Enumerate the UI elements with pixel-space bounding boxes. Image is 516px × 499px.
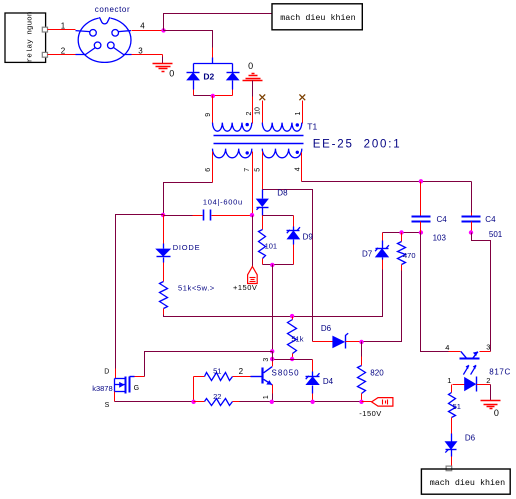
bottom rail left	[115, 401, 194, 403]
wire D6 anode stub	[313, 341, 333, 343]
relay nguon terminal pin 1	[42, 27, 47, 32]
wire opto pin1 down	[451, 385, 453, 393]
diode D2 right element	[226, 72, 240, 80]
wire T1 pin4	[301, 153, 303, 182]
ground 0 (conector)	[153, 63, 173, 65]
junction pin6/cap node	[161, 213, 165, 217]
svg-text:S: S	[105, 402, 110, 409]
svg-text:conector: conector	[95, 5, 130, 14]
transistor K3878 (MOSFET)	[115, 378, 126, 380]
svg-text:D8: D8	[277, 189, 288, 198]
wire D6 cathode to 820 node	[346, 341, 362, 343]
svg-text:mach dieu khien: mach dieu khien	[430, 478, 505, 488]
svg-text:EE-25 200:1: EE-25 200:1	[313, 138, 402, 150]
svg-text:D: D	[104, 368, 109, 375]
svg-text:k3878: k3878	[92, 384, 112, 393]
terminal square	[446, 466, 452, 471]
junction pin7/cap	[250, 213, 254, 217]
svg-text:mach dieu khien: mach dieu khien	[280, 13, 355, 23]
svg-text:5: 5	[254, 168, 261, 172]
optocoupler light arrows	[463, 365, 469, 374]
junction bottom rail 22 left	[191, 400, 195, 404]
wire relay pin2 to conector pin2	[48, 54, 76, 56]
svg-text:-150V: -150V	[359, 409, 382, 418]
resistor 101 top stub	[262, 216, 264, 230]
transistor Q1 S8050	[261, 368, 263, 384]
junction top rail C4-103	[419, 179, 423, 183]
svg-text:2: 2	[486, 376, 490, 385]
diode DIODE	[163, 244, 165, 249]
svg-text:104|-600u: 104|-600u	[203, 197, 243, 206]
svg-text:51k<5w.>: 51k<5w.>	[178, 283, 215, 292]
svg-text:501: 501	[489, 230, 503, 239]
svg-text:D9: D9	[303, 232, 314, 241]
wire 470 bottom	[401, 265, 403, 271]
connector pin 1 contact	[90, 30, 97, 37]
junction C4-103 bottom	[419, 230, 423, 234]
junction 820 top	[359, 340, 363, 344]
power port -150V	[372, 398, 393, 407]
junction 51k top	[290, 314, 294, 318]
svg-text:2: 2	[246, 111, 253, 115]
wire collector rail y359	[273, 359, 313, 361]
svg-text:relay nguon: relay nguon	[27, 12, 35, 63]
diode D2 left element	[186, 72, 200, 80]
junction bottom rail 820	[359, 400, 363, 404]
wire 51k bottom stub	[292, 354, 294, 360]
wire to mach dieu khien (top)	[164, 14, 273, 31]
svg-text:22: 22	[213, 392, 221, 401]
capacitor C104 (104|-600u)	[203, 210, 205, 221]
resistor 51 (opto)	[449, 393, 456, 418]
wire C104 to pin7 node	[212, 215, 253, 217]
T1 polarity dot (pin2 side)	[246, 123, 249, 126]
svg-text:51: 51	[213, 367, 221, 376]
ground 0 (opto)	[481, 400, 501, 402]
wire node to mosfet drain	[116, 215, 164, 369]
connector pin 3 contact	[108, 42, 115, 49]
transformer T1 primary left winding (pins 9-2)	[213, 123, 252, 132]
wire C4-501 bottom to opto pin3	[472, 233, 491, 352]
svg-text:6: 6	[205, 168, 212, 172]
junction C4-501 bottom	[469, 230, 473, 234]
wire collector node down	[272, 352, 274, 362]
wire pin7 to +150V	[252, 216, 254, 267]
wire T1 pin1	[302, 101, 304, 124]
wire DIODE to 51k	[163, 263, 165, 282]
svg-text:817C: 817C	[489, 367, 511, 376]
mach dieu khien box (top)	[272, 4, 362, 30]
diode D6 (bottom)	[445, 441, 458, 450]
wire conector pin4	[132, 30, 164, 32]
svg-text:4: 4	[140, 21, 145, 30]
wire 101 bottom	[262, 259, 264, 265]
wire loop to Q1 collector node	[272, 265, 274, 352]
svg-text:3: 3	[263, 358, 270, 362]
wire opto pin2 to ground	[490, 385, 492, 401]
svg-text:2: 2	[61, 46, 66, 55]
svg-text:D6: D6	[321, 324, 332, 333]
wire D7 top	[382, 233, 384, 241]
svg-text:D7: D7	[362, 250, 373, 259]
wire D4 bottom stub	[312, 386, 314, 394]
svg-text:51: 51	[453, 402, 461, 411]
svg-text:820: 820	[370, 369, 384, 378]
resistor 22 left stub	[194, 401, 205, 403]
svg-text:101: 101	[265, 242, 278, 251]
wire 51 to D6	[451, 418, 453, 434]
T1 polarity dot (pin7 side)	[246, 151, 249, 154]
wire K3878 source	[114, 392, 116, 402]
svg-text:C4: C4	[437, 215, 448, 224]
D2 right leg	[232, 81, 234, 90]
wire D9 bottom	[293, 245, 295, 265]
wire node to C104	[164, 215, 193, 217]
diode D6 (middle)	[332, 336, 345, 349]
svg-text:0: 0	[494, 408, 499, 418]
junction 51-22 left	[193, 377, 195, 402]
mach dieu khien box (bottom)	[421, 469, 510, 494]
svg-text:1: 1	[263, 395, 270, 399]
transformer T1 secondary right winding (pins 5-4)	[262, 149, 302, 158]
wire D8 cathode to D9	[263, 215, 294, 217]
relay nguon box	[5, 13, 46, 62]
ground 0 (top, inverted)	[243, 80, 263, 82]
relay nguon terminal pin 2	[42, 52, 47, 57]
optocoupler LED	[453, 384, 465, 386]
bottom rail middle	[240, 401, 362, 403]
connector pin 2 contact	[94, 42, 101, 49]
diode D2 block frame	[212, 58, 214, 64]
svg-text:1: 1	[295, 111, 302, 115]
wire conector pin3 to ground	[132, 54, 163, 56]
junction Q1 collector node	[270, 349, 274, 353]
junction D2 bottom	[211, 94, 215, 98]
wire 820 bottom stub	[361, 394, 363, 402]
svg-text:7: 7	[244, 168, 251, 172]
resistor 820	[358, 366, 366, 394]
junction loop bottom	[270, 263, 274, 267]
T1 core lines	[214, 135, 304, 137]
resistor 470	[398, 242, 406, 265]
resistor 51 left stub	[194, 376, 205, 378]
svg-text:0: 0	[248, 61, 253, 71]
wire D4 top stub	[312, 360, 314, 372]
diode D8	[262, 190, 264, 199]
wire Q1 emitter	[272, 385, 274, 394]
wire 51 to base	[233, 376, 251, 378]
capacitor C4 103	[420, 182, 422, 217]
resistor 51k	[288, 320, 297, 354]
svg-text:S8050: S8050	[272, 369, 300, 378]
power port +150V	[248, 267, 258, 284]
T1 polarity dot (pin4 side)	[296, 151, 299, 154]
wire 51k bottom to rail	[163, 309, 165, 315]
wire T1 pin6	[212, 152, 214, 183]
svg-text:3: 3	[486, 342, 490, 351]
optocoupler 817C phototransistor	[460, 358, 480, 360]
resistor 51k<5w.>	[160, 282, 168, 309]
svg-text:+150V: +150V	[233, 283, 257, 292]
junction bottom rail D4	[310, 400, 314, 404]
svg-text:4: 4	[295, 167, 302, 171]
junction node pin4	[161, 28, 165, 32]
wire gate net	[135, 376, 145, 378]
wire T1 pin7	[252, 152, 254, 216]
diode D7 (zener)	[382, 258, 384, 260]
T1 polarity dot (pin1 side)	[296, 123, 299, 126]
wire node to DIODE	[163, 215, 165, 244]
svg-text:T1: T1	[307, 121, 317, 131]
connector body (conector)	[78, 18, 131, 63]
capacitor C4 501	[471, 182, 473, 213]
no-connect X on T1 pin1	[299, 94, 305, 100]
svg-text:0: 0	[169, 69, 174, 79]
wire to -150V	[362, 401, 372, 403]
wire top rail	[302, 181, 472, 183]
svg-text:2: 2	[239, 367, 244, 376]
wire T1 pin2	[252, 81, 254, 97]
junction 51k bottom	[290, 357, 294, 361]
wire T1 pin9	[212, 96, 214, 124]
diode D4 (zener)	[305, 376, 319, 385]
svg-text:D2: D2	[203, 71, 214, 81]
wire T1 pin10	[262, 101, 264, 124]
wire C4-103 bottom to opto pin4	[421, 233, 449, 352]
transformer T1 secondary left winding (pins 6-7)	[213, 149, 252, 158]
svg-text:3: 3	[138, 46, 143, 55]
svg-text:51k: 51k	[291, 335, 303, 344]
svg-text:9: 9	[205, 113, 212, 117]
svg-text:103: 103	[433, 233, 447, 242]
resistor 22 right stub	[233, 401, 240, 403]
junction 470 top	[399, 230, 403, 234]
resistor 51	[205, 373, 233, 381]
wire D6 to terminal	[451, 450, 453, 457]
resistor 101	[259, 230, 266, 259]
svg-text:1: 1	[447, 376, 451, 385]
D2 left leg	[193, 81, 195, 90]
wire junction to D2	[164, 31, 213, 48]
connector pin 4 contact	[112, 30, 119, 37]
junction collector/D4 rail	[270, 357, 274, 361]
D2 bottom wire	[194, 95, 213, 97]
diode D9	[293, 227, 295, 231]
junction bottom rail emitter	[270, 400, 274, 404]
svg-text:DIODE: DIODE	[173, 243, 201, 252]
wire pin5 node to D6 rail	[263, 190, 313, 342]
wire 51k top stub	[292, 317, 294, 320]
svg-text:1: 1	[61, 21, 66, 30]
no-connect X on T1 pin10	[259, 94, 265, 100]
resistor 22	[205, 399, 233, 406]
svg-text:D6: D6	[465, 434, 476, 443]
svg-text:C4: C4	[485, 215, 496, 224]
wire 470 top stub	[401, 233, 403, 242]
transformer T1 primary right winding (pins 10-1)	[262, 123, 302, 132]
wire loop bottom	[263, 264, 294, 266]
wire relay pin1 to conector pin1	[48, 29, 76, 31]
wire Q1 base lead	[251, 376, 263, 378]
svg-text:10: 10	[255, 107, 262, 115]
wire T1 pin5	[262, 152, 264, 190]
svg-text:4: 4	[445, 343, 449, 352]
svg-text:D4: D4	[323, 377, 334, 386]
svg-text:G: G	[134, 385, 139, 392]
wire top node y232	[383, 232, 421, 234]
svg-text:470: 470	[403, 251, 416, 260]
wire D7 bottom stub	[382, 260, 384, 270]
wire 820 top stub	[361, 342, 363, 357]
